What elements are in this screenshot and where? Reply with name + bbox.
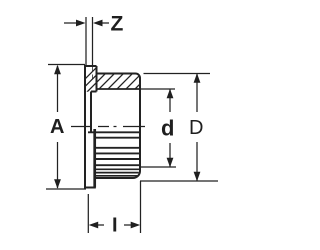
dimension D line lower (196, 142, 198, 181)
bore inner surface line (97, 88, 140, 90)
arrowhead A up (54, 65, 61, 75)
arrowhead d down (167, 158, 174, 168)
dimension d extension bottom (141, 166, 176, 168)
hatching: body top wall section (85, 55, 169, 94)
dimension I leader right (124, 224, 132, 226)
dimension I extension right (140, 181, 142, 233)
arrowhead D down (194, 172, 201, 182)
dimension Z extension line right (92, 17, 94, 65)
dimension A line upper (57, 66, 59, 112)
dimension Z leader left (64, 22, 78, 24)
arrowhead I right (131, 222, 141, 229)
flange outline (84, 66, 97, 188)
dimension Z leader right (102, 22, 109, 24)
dimension A line lower (57, 142, 59, 188)
hatching: flange section (72, 64, 115, 92)
dimension d line upper (169, 90, 171, 113)
dimension Z extension line left (85, 17, 87, 65)
svg-text:Z: Z (111, 13, 124, 36)
arrowhead A down (54, 179, 61, 189)
svg-text:I: I (112, 215, 118, 237)
arrowhead Z left (76, 20, 86, 27)
hidden extension continuation inside flange (92, 67, 94, 82)
dimension d line lower (169, 143, 171, 167)
centre line (axis) (71, 126, 145, 128)
svg-text:d: d (161, 116, 174, 141)
arrowhead I left (89, 222, 99, 229)
svg-text:D: D (189, 117, 203, 139)
body outline (95, 74, 140, 179)
svg-text:A: A (50, 116, 64, 138)
arrowhead d up (167, 89, 174, 99)
dimension D line upper (196, 74, 198, 112)
dimension d extension top (141, 88, 175, 90)
dimension D extension top (144, 73, 211, 75)
dimension D extension bottom (140, 180, 218, 182)
dimension A extension bottom (46, 188, 86, 190)
thread lines (88, 132, 140, 176)
dimension I leader left (98, 224, 105, 226)
dimension I extension left (87, 194, 89, 233)
dimension A extension top (48, 64, 85, 66)
arrowhead Z right (93, 20, 103, 27)
arrowhead D up (194, 73, 201, 83)
